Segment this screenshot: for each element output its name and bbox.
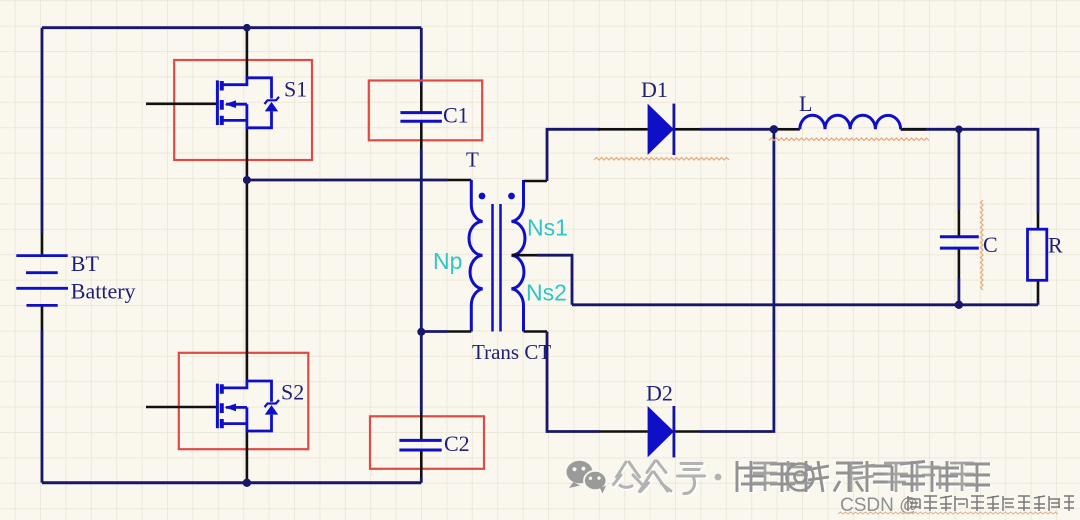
squiggle right of C vertical xyxy=(981,200,984,290)
squiggle under D1 xyxy=(594,158,729,161)
svg-text:Np: Np xyxy=(433,248,462,274)
watermark at-sign xyxy=(787,464,814,491)
mosfet S2 xyxy=(146,180,308,483)
svg-text:Battery: Battery xyxy=(71,279,136,304)
svg-text:Ns2: Ns2 xyxy=(526,280,567,306)
inductor L xyxy=(774,91,926,129)
wire output bottom rail xyxy=(572,303,1038,306)
wire L to output xyxy=(901,129,1038,213)
watermark csdn line xyxy=(840,495,918,516)
junction L output / C top xyxy=(955,126,963,134)
wire midpoint to transformer xyxy=(247,179,448,182)
wire left rail xyxy=(41,28,44,233)
svg-text:S1: S1 xyxy=(284,77,307,102)
squiggle under csdn xyxy=(838,512,1058,514)
wire primary bottom to C node xyxy=(421,330,448,333)
wire Ns2 bottom to D2 xyxy=(547,332,600,432)
wire left rail lower xyxy=(41,330,44,483)
svg-text:T: T xyxy=(466,148,479,172)
wire D1 cathode to L xyxy=(700,128,774,131)
squiggle under L xyxy=(769,138,929,141)
svg-text:C1: C1 xyxy=(443,103,469,128)
battery BT xyxy=(16,233,135,330)
svg-text:C: C xyxy=(983,232,998,257)
junction C1-C2 midpoint / primary bottom xyxy=(417,328,425,336)
svg-text:C2: C2 xyxy=(444,431,470,456)
svg-text:R: R xyxy=(1048,233,1063,258)
watermark middle dot xyxy=(715,474,722,481)
capacitor C2 xyxy=(370,413,484,478)
svg-text:Ns1: Ns1 xyxy=(527,215,568,241)
wire R bottom xyxy=(1037,302,1040,305)
wire D2 cathode up xyxy=(700,129,774,431)
wire center tap out xyxy=(537,255,572,305)
transformer T xyxy=(433,148,568,365)
wire Ns1 top to D1 xyxy=(547,129,600,181)
watermark second overlapping layer xyxy=(753,461,974,492)
svg-text:D2: D2 xyxy=(646,381,673,406)
capacitor C1 xyxy=(369,81,482,151)
junction top rail / S1 drain xyxy=(243,24,251,32)
wire C branch xyxy=(958,129,961,304)
watermark overlapped hanzi jumble xyxy=(739,463,992,494)
junction bottom rail / S2 source xyxy=(243,479,251,487)
diode D1 xyxy=(598,77,700,155)
wire center vertical C1-C2 xyxy=(420,28,423,483)
svg-text:D1: D1 xyxy=(641,77,668,102)
junction half-bridge midpoint node xyxy=(243,176,251,184)
watermark gongzhonghao glyphs xyxy=(615,462,706,495)
resistor R xyxy=(1028,213,1064,302)
junction D1-D2 cathodes / L input xyxy=(770,125,778,133)
svg-text:Trans CT: Trans CT xyxy=(472,340,551,364)
junction C bottom / output return xyxy=(955,301,963,309)
svg-text:L: L xyxy=(799,91,812,116)
diode D2 xyxy=(600,381,700,458)
capacitor C xyxy=(940,210,998,278)
wire bottom rail xyxy=(42,481,421,484)
watermark wechat icon xyxy=(567,461,607,494)
svg-text:S2: S2 xyxy=(281,380,304,405)
svg-text:BT: BT xyxy=(71,251,100,276)
mosfet S1 xyxy=(146,29,312,180)
wire top rail xyxy=(42,26,421,29)
